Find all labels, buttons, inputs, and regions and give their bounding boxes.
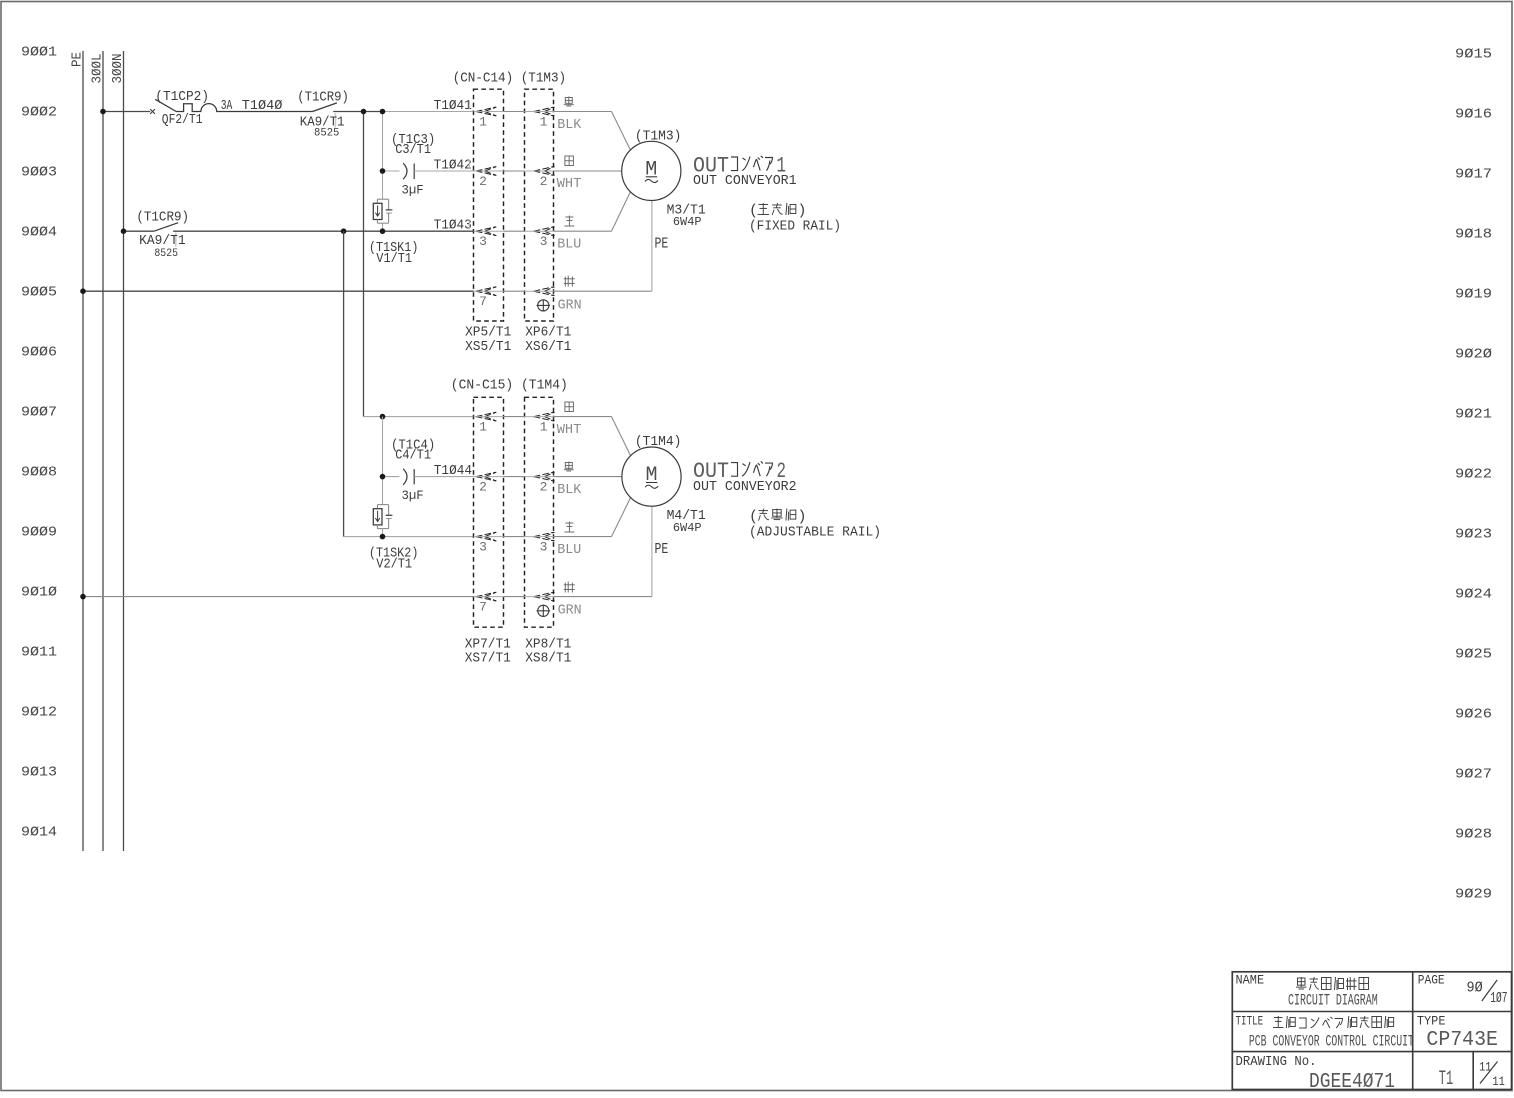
label QF2/T1 bbox=[162, 112, 203, 128]
wire GRN/PE to motor M4 bbox=[554, 506, 652, 596]
svg-text:OUT CONVEYOR1: OUT CONVEYOR1 bbox=[693, 173, 797, 189]
svg-text:(CN-C15) (T1M4): (CN-C15) (T1M4) bbox=[451, 377, 568, 393]
connector pin arrows row y=596.6 bbox=[476, 592, 555, 601]
node row 9009 / SK2 bbox=[380, 534, 386, 540]
kanji label white (row 9007) bbox=[565, 402, 574, 412]
svg-text:6W4P: 6W4P bbox=[673, 216, 702, 229]
header (CN-C14) (T1M3) bbox=[453, 70, 566, 86]
wire through connector row y=231.2 bbox=[474, 230, 554, 232]
label (ADJUSTABLE RAIL) bbox=[749, 524, 881, 540]
connector XP8/XS8 dashed box bbox=[525, 397, 554, 627]
svg-text:(T1M4): (T1M4) bbox=[635, 434, 682, 450]
svg-text:T1Ø41: T1Ø41 bbox=[434, 98, 472, 114]
svg-text:9Ø24: 9Ø24 bbox=[1455, 587, 1492, 603]
svg-text:3ØØN: 3ØØN bbox=[110, 54, 126, 84]
svg-text:CIRCUIT DIAGRAM: CIRCUIT DIAGRAM bbox=[1288, 992, 1378, 1010]
svg-text:V2/T1: V2/T1 bbox=[376, 556, 412, 572]
svg-text:9ØØ1: 9ØØ1 bbox=[21, 45, 57, 61]
connector pin arrows row y=111.5 bbox=[476, 107, 555, 116]
label XS6/T1 bbox=[525, 339, 571, 355]
svg-text:9ØØ3: 9ØØ3 bbox=[21, 165, 57, 181]
svg-text:PE: PE bbox=[655, 541, 669, 558]
header (CN-C15) (T1M4) bbox=[451, 377, 568, 393]
svg-text:9Ø13: 9Ø13 bbox=[21, 765, 57, 781]
pin number 3 bbox=[479, 539, 487, 554]
kanji label green (row 9010) bbox=[564, 582, 575, 593]
svg-text:1Ø7: 1Ø7 bbox=[1490, 990, 1507, 1007]
wire-number tick row 9004 bbox=[468, 220, 470, 229]
svg-text:1: 1 bbox=[540, 419, 548, 434]
pin number 1 bbox=[479, 419, 487, 434]
drawing number DGEE4071 bbox=[1309, 1071, 1395, 1094]
svg-text:9Ø18: 9Ø18 bbox=[1455, 227, 1492, 243]
svg-text:T1Ø42: T1Ø42 bbox=[434, 158, 472, 174]
label XP5/T1 bbox=[465, 325, 511, 341]
svg-text:9Ø19: 9Ø19 bbox=[1455, 287, 1492, 303]
wire between connectors row 9009 bbox=[504, 536, 525, 538]
node 300L row 9002 bbox=[100, 109, 106, 115]
contact actuator tick row 9004 bbox=[175, 233, 177, 247]
label 3A bbox=[221, 98, 233, 114]
svg-text:2: 2 bbox=[540, 479, 548, 494]
svg-text:BLK: BLK bbox=[557, 117, 582, 133]
node row 9004 / vertical C bbox=[341, 228, 347, 234]
svg-text:9ØØ9: 9ØØ9 bbox=[21, 525, 57, 541]
wire through connector row y=416.6 bbox=[474, 416, 554, 418]
node C4 branch row 9008 bbox=[380, 474, 386, 480]
wire through connector row y=536.6 bbox=[474, 536, 554, 538]
label V2/T1 bbox=[376, 556, 412, 572]
wire between connectors row 9008 bbox=[504, 476, 525, 478]
label KA9/T1 row 9004 bbox=[139, 233, 186, 249]
svg-text:(ADJUSTABLE RAIL): (ADJUSTABLE RAIL) bbox=[749, 524, 881, 540]
svg-text:9ØØ4: 9ØØ4 bbox=[21, 225, 57, 241]
svg-text:WHT: WHT bbox=[557, 176, 582, 192]
svg-text:9Ø26: 9Ø26 bbox=[1455, 707, 1492, 723]
kanji label green (row 9005) bbox=[564, 276, 575, 287]
node PE row 9005 bbox=[80, 288, 86, 294]
svg-text:3µF: 3µF bbox=[402, 183, 424, 198]
pin number 2 (right connector) bbox=[540, 174, 548, 189]
wire between connectors row 9010 bbox=[504, 596, 525, 598]
power rail PE (vertical bus) bbox=[82, 51, 84, 851]
power rail 300L (vertical bus) bbox=[102, 51, 104, 851]
label (T1SK1) bbox=[369, 240, 419, 256]
pin number 7 bbox=[479, 599, 487, 614]
rail label 300N (rotated) bbox=[110, 54, 126, 84]
label (T1M4) bbox=[635, 434, 682, 450]
svg-text:7: 7 bbox=[479, 294, 487, 309]
svg-text:TYPE: TYPE bbox=[1417, 1014, 1446, 1029]
svg-text:T1: T1 bbox=[1439, 1068, 1453, 1091]
color label BLU row 9004 bbox=[557, 237, 581, 253]
svg-text:PE: PE bbox=[655, 236, 669, 253]
label XP8/T1 bbox=[525, 637, 571, 653]
surge absorber V1/T1 (T1SK1) bbox=[373, 199, 392, 231]
svg-text:(FIXED RAIL): (FIXED RAIL) bbox=[749, 219, 841, 235]
node C3 branch row 9003 bbox=[380, 168, 386, 174]
page number 90/107 bbox=[1467, 979, 1508, 1007]
svg-text:XS7/T1: XS7/T1 bbox=[465, 651, 511, 667]
svg-text:CP743E: CP743E bbox=[1426, 1029, 1498, 1052]
wire vertical branch row 9007 to C4 and SK2 bbox=[382, 417, 384, 505]
svg-text:6W4P: 6W4P bbox=[673, 522, 702, 535]
svg-text:2: 2 bbox=[540, 174, 548, 189]
net label T1044 bbox=[434, 463, 472, 479]
svg-text:3µF: 3µF bbox=[402, 488, 424, 503]
terminal x mark bbox=[150, 109, 155, 114]
wire through connector row y=291.2 bbox=[474, 290, 554, 292]
label (T1SK2) bbox=[369, 545, 419, 561]
pin number 2 bbox=[479, 174, 487, 189]
svg-text:1: 1 bbox=[540, 114, 548, 129]
color label BLK row 9008 bbox=[557, 482, 582, 498]
node row9002/vertical bbox=[361, 109, 367, 115]
svg-text:9Ø29: 9Ø29 bbox=[1455, 887, 1492, 903]
svg-text:C3/T1: C3/T1 bbox=[395, 142, 431, 158]
svg-text:GRN: GRN bbox=[558, 603, 582, 619]
svg-text:2: 2 bbox=[479, 174, 487, 189]
label (T1M3) bbox=[635, 128, 682, 144]
sheet T1 bbox=[1439, 1068, 1453, 1091]
svg-text:9ØØ2: 9ØØ2 bbox=[21, 105, 57, 121]
label (T1C3) bbox=[391, 132, 435, 148]
label 8525 bbox=[314, 128, 339, 140]
connector pin arrows row y=416.6 bbox=[476, 412, 555, 421]
svg-text:M: M bbox=[645, 158, 657, 181]
color label WHT row 9007 bbox=[557, 422, 582, 438]
svg-text:T1Ø4Ø: T1Ø4Ø bbox=[242, 98, 283, 114]
connector pin arrows row y=231.2 bbox=[476, 227, 555, 236]
svg-text:(T1CR9): (T1CR9) bbox=[136, 210, 189, 226]
title block NAME label bbox=[1236, 973, 1265, 988]
color label WHT row 9003 bbox=[557, 176, 582, 192]
wire between connectors row 9002 bbox=[504, 111, 525, 113]
svg-text:9Ø27: 9Ø27 bbox=[1455, 767, 1492, 783]
svg-text:T1Ø43: T1Ø43 bbox=[434, 218, 472, 234]
connector XP6/XS6 dashed box bbox=[525, 89, 554, 321]
node row 9004 / SK1 bbox=[380, 228, 386, 234]
label (T1CR9) row 9004 bbox=[136, 210, 189, 226]
svg-text:3A: 3A bbox=[221, 98, 233, 114]
node row9002 branch bbox=[380, 109, 386, 115]
pin number 2 (right connector) bbox=[540, 479, 548, 494]
svg-text:9Ø22: 9Ø22 bbox=[1455, 467, 1492, 483]
wire row 9007 horizontal bbox=[364, 416, 474, 418]
label OUT conveyor1 (Japanese) bbox=[693, 153, 786, 178]
connector XP7/XS7 dashed box bbox=[474, 397, 504, 627]
pin number 3 (right connector) bbox=[540, 539, 548, 554]
wire vertical from row 9004 down to row 9009 bbox=[344, 231, 474, 536]
relay contact KA9/T1 (T1CR9) row 9004 bbox=[154, 223, 474, 232]
wire BLU to motor M3 bbox=[554, 192, 631, 231]
svg-text:XS6/T1: XS6/T1 bbox=[525, 339, 571, 355]
svg-text:KA9/T1: KA9/T1 bbox=[139, 233, 186, 249]
svg-text:3: 3 bbox=[479, 234, 487, 249]
label (T1CP2) bbox=[155, 89, 209, 105]
svg-text:(T1M3): (T1M3) bbox=[635, 128, 682, 144]
pin number 1 (right connector) bbox=[540, 419, 548, 434]
title block PAGE label bbox=[1418, 973, 1445, 988]
label 6W4P bbox=[673, 216, 702, 229]
svg-text:2: 2 bbox=[479, 479, 487, 494]
node PE row 9010 bbox=[80, 594, 86, 600]
connector pin arrows row y=536.6 bbox=[476, 532, 555, 541]
svg-text:7: 7 bbox=[479, 599, 487, 614]
node row 9007 branch bbox=[380, 414, 386, 420]
label 3uF c2 bbox=[402, 488, 424, 503]
svg-text:9Ø16: 9Ø16 bbox=[1455, 107, 1492, 123]
title PCB CONVEYOR CONTROL CIRCUIT bbox=[1249, 1033, 1414, 1051]
label PE at motor M3 bbox=[655, 236, 669, 253]
svg-text:OUT CONVEYOR2: OUT CONVEYOR2 bbox=[693, 479, 797, 495]
svg-text:BLU: BLU bbox=[557, 542, 581, 558]
svg-text:9ØØ6: 9ØØ6 bbox=[21, 345, 57, 361]
label M3/T1 bbox=[667, 203, 706, 219]
net label T1041 bbox=[434, 98, 472, 114]
label XP6/T1 bbox=[525, 325, 571, 341]
label (FIXED RAIL) bbox=[749, 219, 841, 235]
title block DRAWING No. label bbox=[1236, 1054, 1317, 1070]
wire-number tick row 9003 bbox=[468, 160, 470, 169]
svg-text:(: ( bbox=[749, 508, 758, 525]
protective earth symbol bbox=[537, 605, 551, 616]
svg-text:9Ø2Ø: 9Ø2Ø bbox=[1455, 347, 1492, 363]
kanji label blue (row 9004) bbox=[564, 216, 574, 227]
svg-text:T1Ø44: T1Ø44 bbox=[434, 463, 472, 479]
wire BLU to motor M4 bbox=[554, 498, 631, 537]
svg-text:PE: PE bbox=[70, 52, 86, 67]
wire between connectors row 9003 bbox=[504, 170, 525, 172]
wire PE row 9005 bbox=[83, 290, 474, 292]
svg-text:1: 1 bbox=[479, 419, 487, 434]
label 3uF bbox=[402, 183, 424, 198]
power rail 300N (vertical bus) bbox=[123, 51, 125, 851]
svg-text:V1/T1: V1/T1 bbox=[376, 251, 412, 267]
svg-text:TITLE: TITLE bbox=[1236, 1014, 1264, 1029]
wire 300L to breaker QF2 (row 9002) bbox=[103, 111, 150, 113]
rail label PE (rotated) bbox=[70, 52, 86, 67]
wire through connector row y=111.5 bbox=[474, 111, 554, 113]
connector pin arrows row y=171.0 bbox=[476, 167, 555, 176]
wire vertical branch row 9002 to C3 and SK1 bbox=[382, 112, 384, 200]
pin number 1 (right connector) bbox=[540, 114, 548, 129]
wire through connector row y=596.6 bbox=[474, 596, 554, 598]
wire between connectors row 9004 bbox=[504, 230, 525, 232]
net label T1043 bbox=[434, 218, 472, 234]
svg-text:): ) bbox=[798, 203, 807, 220]
wire BLK to motor M4 bbox=[554, 476, 622, 478]
label C4/T1 bbox=[395, 448, 431, 464]
motor M4/T1 (T1M4) bbox=[622, 447, 681, 506]
svg-text:GRN: GRN bbox=[558, 298, 582, 314]
color label BLU row 9009 bbox=[557, 542, 581, 558]
title kanji PCB conveyor control circuit (Japanese) bbox=[1273, 1016, 1394, 1028]
svg-text:XS5/T1: XS5/T1 bbox=[465, 339, 511, 355]
label (fixed side, Japanese) bbox=[749, 203, 807, 220]
svg-text:): ) bbox=[798, 508, 807, 525]
wire WHT to motor M3 bbox=[554, 170, 622, 172]
svg-text:C4/T1: C4/T1 bbox=[395, 448, 431, 464]
svg-text:9Ø11: 9Ø11 bbox=[21, 645, 57, 661]
kanji label black (row 9008) bbox=[564, 462, 574, 472]
node 300N row 9004 bbox=[121, 228, 127, 234]
svg-text:1: 1 bbox=[479, 114, 487, 129]
connector XP5/XS5 dashed box bbox=[474, 89, 504, 321]
title block TITLE label bbox=[1236, 1014, 1264, 1029]
wire T1041 to connector (row 9002) bbox=[383, 111, 474, 113]
capacitor C4/T1 (T1C4) 3uF row 9008 bbox=[383, 469, 474, 485]
svg-text:DGEE4Ø71: DGEE4Ø71 bbox=[1309, 1071, 1395, 1093]
svg-text:9Ø14: 9Ø14 bbox=[21, 825, 57, 841]
svg-text:8525: 8525 bbox=[154, 248, 178, 260]
pin number 2 bbox=[479, 479, 487, 494]
svg-text:8525: 8525 bbox=[314, 128, 339, 140]
label 6W4P c2 bbox=[673, 522, 702, 535]
connector pin arrows row y=476.6 bbox=[476, 472, 555, 481]
motor M3/T1 (T1M3) bbox=[622, 141, 681, 200]
svg-text:9Ø21: 9Ø21 bbox=[1455, 407, 1492, 423]
label V1/T1 bbox=[376, 251, 412, 267]
svg-text:BLU: BLU bbox=[557, 237, 581, 253]
svg-text:9ØØ8: 9ØØ8 bbox=[21, 465, 57, 481]
label XS8/T1 bbox=[525, 651, 571, 667]
kanji label white (row 9003) bbox=[565, 156, 574, 166]
pin number 1 bbox=[479, 114, 487, 129]
contact actuator tick bbox=[334, 113, 336, 128]
circuit breaker QF2/T1 (T1CP2) 3A bbox=[155, 99, 312, 111]
label (T1CR9) bbox=[297, 89, 349, 105]
capacitor C3/T1 (T1C3) 3uF row 9003 bbox=[383, 163, 474, 179]
right line-number column 9015-9029 bbox=[1455, 47, 1492, 903]
svg-text:3: 3 bbox=[479, 539, 487, 554]
rail label 300L (rotated) bbox=[90, 54, 106, 84]
label (adjustable side, Japanese) bbox=[749, 508, 807, 525]
svg-text:3: 3 bbox=[540, 539, 548, 554]
label M4/T1 bbox=[667, 508, 706, 524]
net label T1040 bbox=[242, 98, 283, 114]
wire through connector row y=171.0 bbox=[474, 170, 554, 172]
svg-text:PCB CONVEYOR CONTROL CIRCUIT: PCB CONVEYOR CONTROL CIRCUIT bbox=[1249, 1033, 1414, 1051]
svg-text:(CN-C14) (T1M3): (CN-C14) (T1M3) bbox=[453, 70, 566, 86]
title kanji circuit diagram (Japanese) bbox=[1296, 977, 1369, 990]
label KA9/T1 bbox=[300, 114, 345, 130]
svg-text:11: 11 bbox=[1492, 1074, 1505, 1089]
label OUT CONVEYOR1 bbox=[693, 173, 797, 189]
wire vertical from row 9002 down to row 9007 bbox=[363, 112, 365, 417]
connector pin arrows row y=291.2 bbox=[476, 287, 555, 296]
label OUT CONVEYOR2 bbox=[693, 479, 797, 495]
svg-text:(T1CP2): (T1CP2) bbox=[155, 89, 209, 105]
svg-text:9Ø: 9Ø bbox=[1467, 979, 1483, 996]
pin number 3 (right connector) bbox=[540, 234, 548, 249]
kanji label blue (row 9009) bbox=[564, 522, 574, 533]
kanji label black (row 9002) bbox=[564, 97, 574, 107]
svg-text:NAME: NAME bbox=[1236, 973, 1265, 988]
sheet number 11/11 bbox=[1479, 1060, 1505, 1090]
wire between connectors row 9005 bbox=[504, 290, 525, 292]
svg-text:9ØØ7: 9ØØ7 bbox=[21, 405, 57, 421]
label XP7/T1 bbox=[465, 637, 511, 653]
svg-text:9ØØ5: 9ØØ5 bbox=[21, 285, 57, 301]
svg-text:(T1CR9): (T1CR9) bbox=[297, 89, 349, 105]
left line-number column 9001-9014 bbox=[21, 45, 57, 841]
wire through connector row y=476.6 bbox=[474, 476, 554, 478]
svg-text:WHT: WHT bbox=[557, 422, 582, 438]
label OUT conveyor2 (Japanese) bbox=[693, 459, 786, 484]
surge absorber V2/T1 (T1SK2) bbox=[373, 505, 392, 537]
svg-text:9Ø12: 9Ø12 bbox=[21, 705, 57, 721]
svg-text:9Ø1Ø: 9Ø1Ø bbox=[21, 585, 57, 601]
pin number 7 bbox=[479, 294, 487, 309]
wire-number tick bbox=[468, 101, 470, 110]
title block TYPE label bbox=[1417, 1014, 1446, 1029]
svg-text:9Ø23: 9Ø23 bbox=[1455, 527, 1492, 543]
svg-text:9Ø28: 9Ø28 bbox=[1455, 827, 1492, 843]
protective earth symbol bbox=[537, 300, 551, 311]
svg-text:XS8/T1: XS8/T1 bbox=[525, 651, 571, 667]
title block frame bbox=[1232, 972, 1511, 1090]
pin number 3 bbox=[479, 234, 487, 249]
label XS5/T1 bbox=[465, 339, 511, 355]
svg-text:BLK: BLK bbox=[557, 482, 582, 498]
relay contact KA9/T1 (T1CR9) row 9002 bbox=[313, 103, 383, 112]
title CIRCUIT DIAGRAM bbox=[1288, 992, 1378, 1010]
color label GRN row 9010 bbox=[558, 603, 582, 619]
net label T1042 bbox=[434, 158, 472, 174]
wire WHT to motor M4 bbox=[554, 417, 631, 456]
type CP743E bbox=[1426, 1029, 1498, 1052]
svg-text:11: 11 bbox=[1479, 1060, 1492, 1075]
color label BLK row 9002 bbox=[557, 117, 582, 133]
svg-text:9Ø25: 9Ø25 bbox=[1455, 647, 1492, 663]
label 8525 row 9004 bbox=[154, 248, 178, 260]
wire between connectors row 9007 bbox=[504, 416, 525, 418]
label XS7/T1 bbox=[465, 651, 511, 667]
wire PE row 9010 bbox=[83, 596, 474, 598]
label (T1C4) bbox=[391, 438, 435, 454]
color label GRN row 9005 bbox=[558, 298, 582, 314]
svg-text:DRAWING No.: DRAWING No. bbox=[1236, 1054, 1317, 1070]
svg-text:M: M bbox=[645, 464, 657, 487]
svg-text:3: 3 bbox=[540, 234, 548, 249]
svg-text:3ØØL: 3ØØL bbox=[90, 54, 106, 84]
wire BLK to motor M3 bbox=[554, 112, 631, 151]
svg-text:PAGE: PAGE bbox=[1418, 973, 1445, 988]
wire GRN/PE to motor M3 bbox=[554, 201, 652, 292]
svg-text:QF2/T1: QF2/T1 bbox=[162, 112, 203, 128]
svg-text:9Ø15: 9Ø15 bbox=[1455, 47, 1492, 63]
svg-text:(: ( bbox=[749, 203, 758, 220]
wire 300N to contact row 9004 bbox=[124, 230, 155, 232]
label C3/T1 bbox=[395, 142, 431, 158]
svg-text:9Ø17: 9Ø17 bbox=[1455, 167, 1492, 183]
label PE at motor M4 bbox=[655, 541, 669, 558]
